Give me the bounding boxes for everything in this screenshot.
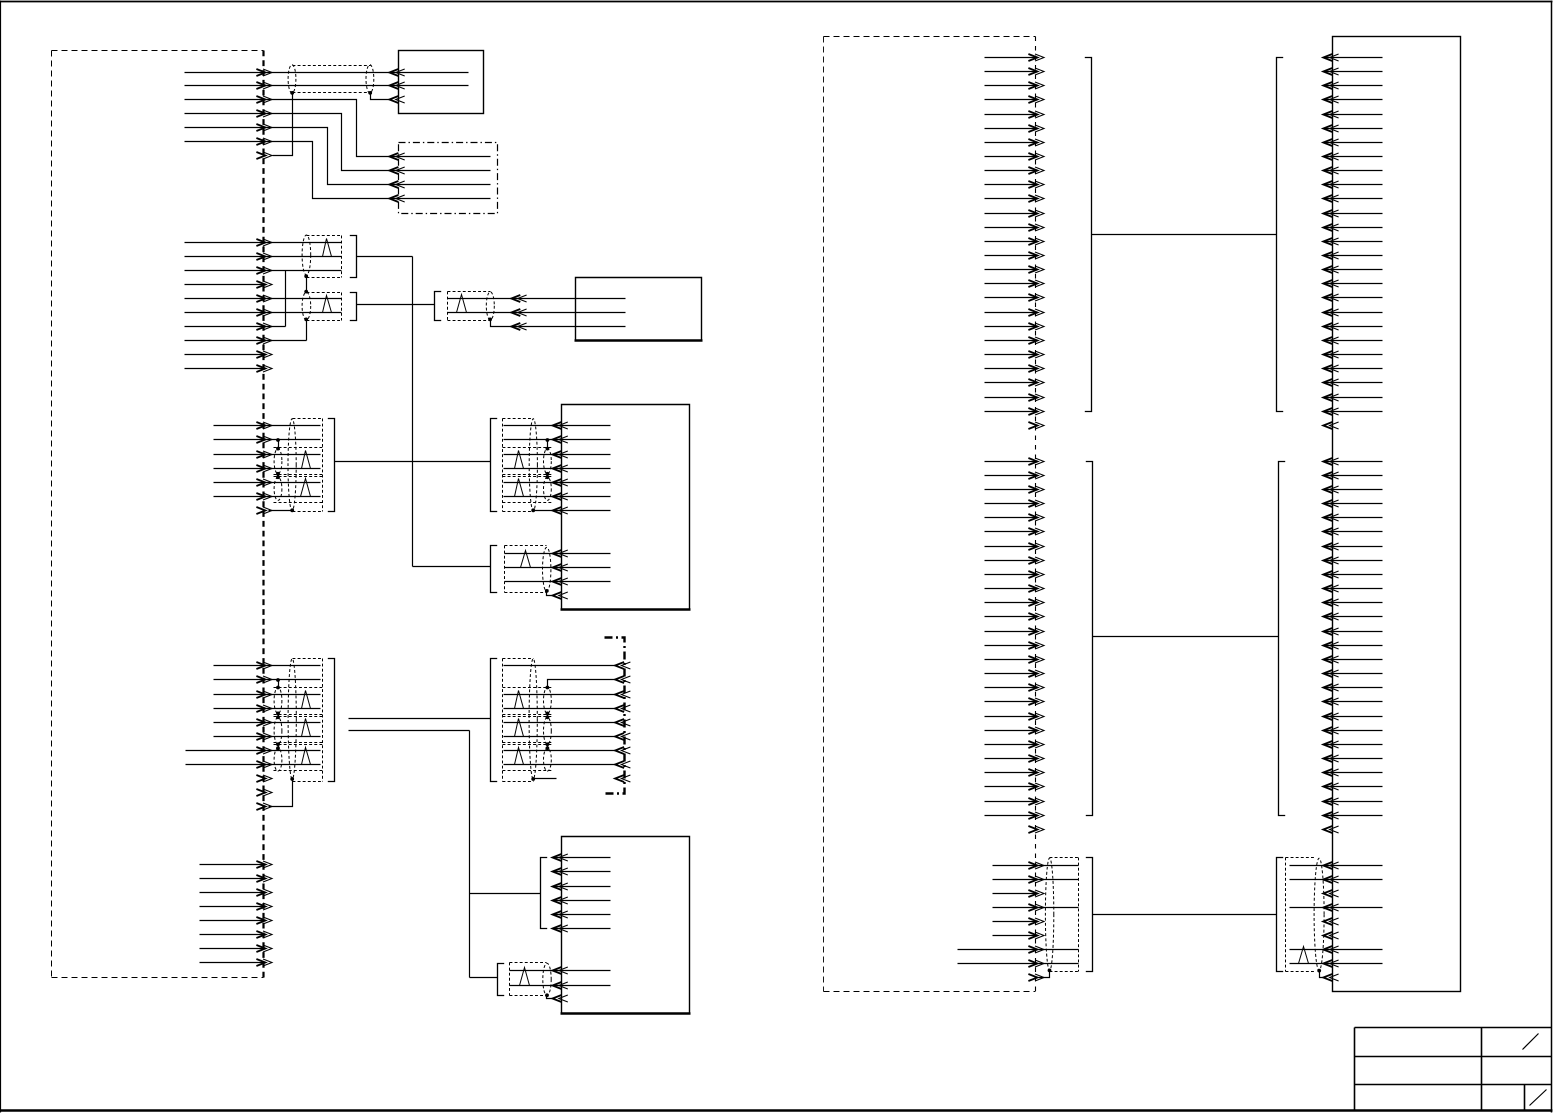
wire U5-4 (553, 900, 611, 902)
shield junction W6 top (276, 475, 280, 479)
shield junction W14 top (276, 746, 280, 750)
terminal arrow P7-3 (1028, 486, 1044, 493)
terminal arrow P7-12 (1028, 613, 1044, 620)
shield box W2 (dotted) (307, 236, 342, 278)
terminal arrow P6-21 (1028, 337, 1044, 344)
terminal arrow P4-7 (256, 747, 272, 754)
terminal arrow P8-2 (1028, 876, 1044, 883)
wire U6-43 (1324, 673, 1383, 675)
wire P7-12 (985, 616, 1038, 618)
cabinet A dashed outline (left) (52, 51, 264, 978)
arrow Q1-1 (615, 662, 630, 669)
arrow U6-33 (1323, 528, 1338, 535)
wire P1-3 to J2-1 (185, 100, 491, 157)
arrow U6-16 (1323, 266, 1338, 273)
wire U6-42 (1324, 659, 1383, 661)
terminal arrow P7-4 (1028, 500, 1044, 507)
arrow U6-58 (1323, 904, 1338, 911)
terminal arrow P6-23 (1028, 365, 1044, 372)
device box U2 (dash-dot) (399, 143, 498, 214)
bracket CN7 (328, 659, 335, 782)
wire U6-31 (1324, 503, 1383, 505)
arrow U6-40 (1323, 628, 1338, 635)
terminal arrow P5-4 (256, 903, 272, 910)
arrow U4-9 (553, 564, 568, 571)
net CN2b to CN3 (357, 304, 435, 306)
terminal arrow P7-20 (1028, 727, 1044, 734)
shield junction W17 top (546, 715, 550, 719)
wire P4-4 (twisted pair) (214, 708, 321, 710)
terminal arrow P7-27 (spare) (1028, 826, 1044, 833)
terminal arrow P6-9 (1028, 167, 1044, 174)
wire U6-40 (1324, 631, 1383, 633)
shield junction W2 (304, 274, 308, 278)
wire U6-44 (1324, 687, 1383, 689)
bracket CN11 (1085, 58, 1092, 412)
wire U6-35 (1324, 560, 1383, 562)
cable W15 dotted box (274, 659, 323, 782)
shield junction W18 top (546, 746, 550, 750)
arrow J2-2 (389, 167, 404, 174)
page border left (0, 1, 2, 1113)
wire U6-39 (1324, 616, 1383, 618)
shield loop W2 (302, 235, 311, 275)
wire P7-10 (985, 588, 1038, 590)
wire P6-14 (985, 241, 1038, 243)
arrow U6-29 (1323, 472, 1338, 479)
wire U6-6 (1324, 128, 1383, 130)
terminal arrow P3-7 (256, 507, 272, 514)
shield junction W8 bottom (546, 472, 550, 476)
arrow U6-36 (1323, 571, 1338, 578)
terminal arrow P1-4 (256, 110, 272, 117)
terminal arrow P7-26 (1028, 812, 1044, 819)
wire P6-16 (985, 269, 1038, 271)
terminal arrow P1-1 (256, 69, 272, 76)
arrow U4-6 (553, 493, 568, 500)
wire P3-3 (214, 454, 321, 456)
shield link W8-W9 (547, 474, 549, 478)
arrow Q1-8 (615, 761, 630, 768)
arrow U6-51 (1323, 783, 1338, 790)
arrow U6-27 (spare) (1323, 422, 1338, 429)
wire P7-4 (985, 503, 1038, 505)
wire P7-21 (985, 744, 1038, 746)
terminal arrow P1-5 (256, 124, 272, 131)
arrow U4-7 (553, 507, 568, 514)
wire P6-4 (985, 99, 1038, 101)
wire U5-6 (553, 928, 611, 930)
arrow U6-15 (1323, 252, 1338, 259)
terminal arrow P2-5 (256, 295, 272, 302)
title block slash row1 (1523, 1034, 1539, 1050)
overall shield loop W7 (288, 419, 296, 511)
arrow U1-1 (389, 69, 404, 76)
arrow Q1-5 (615, 719, 630, 726)
inner shield loop W17 (544, 717, 552, 744)
page border bottom (1, 1109, 1553, 1111)
net CN15 to CN16 (1093, 914, 1277, 916)
arrow U6-17 (1323, 280, 1338, 287)
wire Q1-9 shield drain (534, 778, 557, 780)
terminal arrow P2-9 (256, 351, 272, 358)
title block slash row3 (1530, 1090, 1547, 1106)
twist symbol W11 (521, 551, 531, 568)
twist symbol W8 (515, 451, 524, 469)
wire Q1-3 (504, 694, 617, 696)
arrow U6-22 (1323, 351, 1338, 358)
terminal arrow P4-9 (spare) (256, 775, 272, 782)
arrow U5-1 (553, 854, 568, 861)
wire U6-32 (1324, 517, 1383, 519)
terminal arrow P6-24 (1028, 379, 1044, 386)
wire P7-3 (985, 489, 1038, 491)
bracket CN3 (435, 292, 442, 321)
shield link W13-W14 (278, 745, 280, 749)
terminal arrow P6-16 (1028, 266, 1044, 273)
arrow U6-62 (1323, 960, 1338, 967)
arrow U6-46 (1323, 713, 1338, 720)
wire Q1-6 (twisted) (504, 736, 617, 738)
terminal arrow P7-18 (1028, 698, 1044, 705)
wire P4-8 (twisted pair) (186, 764, 321, 766)
terminal arrow P5-5 (256, 917, 272, 924)
wire P4-6 (twisted pair) (214, 736, 321, 738)
wire U6-19 (1324, 312, 1383, 314)
wire U4-8 (505, 553, 611, 555)
wire P2-8 shield drain (185, 320, 307, 341)
arrow Q1-7 (615, 747, 630, 754)
shield junction W13 top (276, 715, 280, 719)
overall shield junction W7 (290, 508, 294, 512)
wire P6-1 (985, 57, 1038, 59)
wire U6-46 (1324, 716, 1383, 718)
bracket CN5 (491, 419, 498, 512)
arrow Q1-4 (615, 705, 630, 712)
inner shield loop W16 (544, 688, 552, 714)
inner shield loop W8 (544, 449, 552, 474)
inner shield loop W5 (274, 449, 282, 474)
wire U6-1 (1324, 57, 1383, 59)
wire U6-30 (1324, 489, 1383, 491)
arrow U1-2 (389, 82, 404, 89)
arrow U6-34 (1323, 543, 1338, 550)
wire P4-2 (214, 679, 321, 681)
wire P3-6 (twisted pair) (214, 496, 321, 498)
arrow U6-18 (1323, 294, 1338, 301)
terminal arrow P6-20 (1028, 323, 1044, 330)
bracket CN9 (541, 858, 548, 929)
arrow U6-31 (1323, 500, 1338, 507)
overall shield loop W10 (529, 419, 537, 511)
wire P6-22 (985, 354, 1038, 356)
terminal arrow P1-7 (256, 152, 272, 159)
twist symbol W6 (301, 479, 311, 497)
wire U6-2 (1324, 71, 1383, 73)
wire U6-11 (1324, 198, 1383, 200)
terminal arrow P8-8 (1028, 960, 1044, 967)
arrow U6-32 (1323, 514, 1338, 521)
shield junction W3 bottom (304, 318, 308, 322)
wire P6-9 (985, 170, 1038, 172)
overall shield junction W19 (531, 777, 535, 781)
arrow U6-54 (spare) (1323, 826, 1338, 833)
terminal arrow P6-17 (1028, 280, 1044, 287)
wire U4-6 (twisted) (504, 496, 611, 498)
arrow U6-45 (1323, 698, 1338, 705)
terminal arrow P7-9 (1028, 571, 1044, 578)
shield rail dash-dot C-box (605, 638, 625, 794)
terminal arrow P6-26 (1028, 408, 1044, 415)
wire U6-18 (1324, 297, 1383, 299)
inner shield loop W9 (544, 477, 552, 500)
overall shield drain P4-11 (269, 779, 293, 807)
wire U6-49 (1324, 758, 1383, 760)
terminal arrow P4-1 (256, 662, 272, 669)
wire P6-12 (985, 213, 1038, 215)
wire U6-50 (1324, 772, 1383, 774)
inner shield loop W12 (274, 688, 282, 714)
wire U6-22 (1324, 354, 1383, 356)
terminal arrow P7-7 (1028, 543, 1044, 550)
inner shield loop W6 (274, 477, 282, 500)
shield drain W22 (1320, 971, 1324, 978)
arrow U6-19 (1323, 309, 1338, 316)
wire U6-4 (1324, 99, 1383, 101)
wire P8-4 (993, 907, 1079, 909)
twist symbol W13 (302, 719, 311, 737)
wire P6-19 (985, 312, 1038, 314)
terminal arrow P4-6 (256, 733, 272, 740)
terminal arrow P6-11 (1028, 195, 1044, 202)
wire U6-41 (1324, 645, 1383, 647)
terminal arrow P7-24 (1028, 783, 1044, 790)
wire U6-58 (1290, 907, 1383, 909)
terminal arrow P2-6 (256, 309, 272, 316)
wire P2-4 (185, 284, 266, 286)
arrow U6-55 (1323, 862, 1338, 869)
shield loop W20 (543, 963, 551, 995)
terminal arrow P6-4 (1028, 96, 1044, 103)
junction P4-2 drain (276, 678, 280, 682)
wire U5-7 (510, 970, 611, 972)
arrow J2-4 (389, 195, 404, 202)
arrow U4-8 (553, 550, 568, 557)
shield junction W17 bottom (546, 742, 550, 746)
net CN13 to CN14 (1093, 636, 1279, 638)
wire P6-5 (985, 114, 1038, 116)
inner shield loop W14 (274, 748, 282, 771)
wire P6-13 (985, 227, 1038, 229)
arrow U6-43 (1323, 670, 1338, 677)
cable W7 dotted box (274, 419, 323, 512)
arrow U6-39 (1323, 613, 1338, 620)
terminal arrow P8-4 (1028, 904, 1044, 911)
shield junction W22 (1317, 969, 1321, 973)
trunk net T2 (470, 731, 541, 978)
wire P6-26 (985, 411, 1038, 413)
wire P1-4 to J2-2 (185, 114, 491, 171)
wire P8-1 (993, 865, 1079, 867)
wire U4-7 shield drain (534, 510, 611, 512)
wire P6-3 (985, 85, 1038, 87)
shield junction W1 right (368, 91, 372, 95)
twist symbol W20 (520, 968, 530, 986)
terminal arrow P6-15 (1028, 252, 1044, 259)
terminal arrow P7-1 (1028, 458, 1044, 465)
terminal arrow P7-25 (1028, 798, 1044, 805)
cable shield W1 dotted box (293, 66, 371, 93)
shield drain P8-9 (1039, 971, 1050, 978)
terminal arrow P7-5 (1028, 514, 1044, 521)
device box U5 (561, 837, 691, 1014)
wire P5-5 (200, 920, 266, 922)
terminal arrow P8-9 (1028, 974, 1044, 981)
bracket CN6 (491, 546, 498, 593)
wire P7-11 (985, 602, 1038, 604)
terminal arrow P1-6 (256, 138, 272, 145)
net CN11 to CN12 (1092, 234, 1277, 236)
terminal arrow P5-7 (256, 945, 272, 952)
wire P7-18 (985, 701, 1038, 703)
cable W16 dotted box (503, 659, 552, 782)
wire U6-37 (1324, 588, 1383, 590)
wire P3-2 (214, 439, 321, 441)
arrow U6-35 (1323, 557, 1338, 564)
wire U6-8 (1324, 156, 1383, 158)
shield box W3 (dotted) (307, 293, 342, 321)
arrow U6-63 (1323, 974, 1338, 981)
arrow Q1-2 (615, 676, 630, 683)
arrow U5-9 (553, 995, 568, 1002)
device box U1 (399, 51, 484, 114)
wire P7-9 (985, 574, 1038, 576)
terminal arrow P7-8 (1028, 557, 1044, 564)
arrow U6-57 (stub) (1323, 890, 1338, 897)
device box U6 (1333, 37, 1461, 992)
cable W11 dotted box (505, 546, 547, 593)
cable W21 dotted box (1050, 858, 1079, 972)
cable W22 dotted box (1286, 858, 1315, 972)
bracket CN2a (350, 236, 357, 278)
wire P5-1 (200, 864, 266, 866)
arrow U6-8 (1323, 153, 1338, 160)
wire P5-3 (200, 892, 266, 894)
terminal arrow P2-4 (256, 281, 272, 288)
wire U6-20 (1324, 326, 1383, 328)
wire U6-51 (1324, 786, 1383, 788)
arrow U5-7 (553, 967, 568, 974)
wire P6-10 (985, 184, 1038, 186)
inner shield loop W18 (544, 748, 552, 771)
arrow U6-38 (1323, 599, 1338, 606)
arrow U6-47 (1323, 727, 1338, 734)
wire U4-3 (504, 454, 611, 456)
wire U6-47 (1324, 730, 1383, 732)
arrow U4-10 (553, 578, 568, 585)
trunk net T1 (413, 257, 491, 567)
bracket CN2b (350, 293, 357, 321)
wire P6-24 (985, 382, 1038, 384)
arrow U6-50 (1323, 769, 1338, 776)
terminal arrow P5-6 (256, 931, 272, 938)
arrow U6-48 (1323, 741, 1338, 748)
wire P7-25 (985, 801, 1038, 803)
terminal arrow P3-3 (256, 451, 272, 458)
shield junction W16 bottom (546, 712, 550, 716)
net A CN7 to CN8 (349, 718, 491, 720)
wire P7-17 (985, 687, 1038, 689)
drain link W8 (547, 440, 549, 449)
twist symbol W12 (302, 691, 311, 709)
arrow Q1-3 (615, 691, 630, 698)
twist symbol W17 (515, 719, 524, 737)
terminal arrow P4-10 (spare) (256, 789, 272, 796)
cabinet B terminal rail (dashed) (1035, 37, 1037, 992)
shield loop W4 (486, 292, 494, 320)
arrow W4-c (511, 323, 526, 330)
shield junction W21 (1048, 969, 1052, 973)
wire U5-3 (553, 886, 611, 888)
terminal arrow P7-11 (1028, 599, 1044, 606)
wire U6-61 (1290, 949, 1383, 951)
wire U6-26 (1324, 411, 1383, 413)
arrow U6-59 (stub) (1323, 918, 1338, 925)
shield link W5-W6 (278, 474, 280, 478)
device box U3 (575, 278, 703, 341)
terminal arrow P2-7 (256, 323, 272, 330)
wire P3-7 overall shield drain (269, 510, 293, 512)
arrow U6-44 (1323, 684, 1338, 691)
arrow U6-12 (1323, 210, 1338, 217)
terminal arrow P6-25 (1028, 394, 1044, 401)
shield loop W22 (1314, 858, 1324, 970)
shield drain W20 (547, 996, 553, 999)
wire P2-10 (185, 368, 266, 370)
wire U5-8 (twisted) (510, 985, 611, 987)
shield junction W5 bottom (276, 472, 280, 476)
shield junction W5 top (276, 447, 280, 451)
shield junction W1 left (290, 91, 294, 95)
terminal arrow P6-8 (1028, 153, 1044, 160)
wire P5-8 (200, 962, 266, 964)
wire P7-23 (985, 772, 1038, 774)
arrow U6-6 (1323, 125, 1338, 132)
wire P6-21 (985, 340, 1038, 342)
arrow U6-3 (1323, 82, 1338, 89)
wire P6-8 (985, 156, 1038, 158)
wire P7-16 (985, 673, 1038, 675)
wire W4-b into U3 (twisted) (448, 312, 626, 314)
wire W4-a into U3 (448, 298, 626, 300)
terminal arrow P7-2 (1028, 472, 1044, 479)
wire P7-26 (985, 815, 1038, 817)
wire Q1-1 (504, 665, 617, 667)
wire P8-5 (993, 921, 1038, 923)
terminal arrow P6-19 (1028, 309, 1044, 316)
arrow U5-2 (553, 868, 568, 875)
bracket CN15 (1086, 858, 1093, 972)
wire U6-23 (1324, 368, 1383, 370)
shield loop W1 right (366, 65, 374, 93)
arrow U5-3 (553, 883, 568, 890)
bracket CN12 (1277, 58, 1284, 412)
wire U6-53 (1324, 815, 1383, 817)
arrow U6-28 (1323, 458, 1338, 465)
arrow U4-11 (553, 592, 568, 599)
terminal arrow P6-14 (1028, 238, 1044, 245)
bracket CN4 (328, 419, 335, 512)
